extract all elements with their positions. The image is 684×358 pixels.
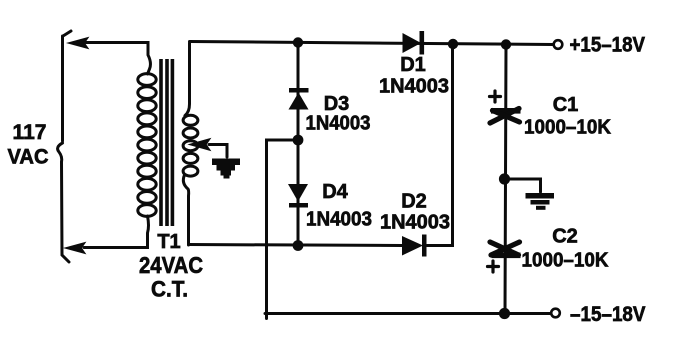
node junction C2 bottom — [499, 308, 510, 319]
node junction D2 return top — [448, 39, 458, 49]
wire D2 cathode to top rail — [427, 44, 453, 246]
svg-text:D2: D2 — [401, 191, 427, 213]
node junction D3 top — [293, 37, 303, 47]
svg-text:C.T.: C.T. — [151, 277, 188, 302]
diode D4 — [288, 184, 308, 208]
wire negative rail — [265, 312, 550, 315]
diode D2 — [402, 235, 427, 257]
117 VAC source line — [58, 31, 71, 262]
svg-text:24VAC: 24VAC — [139, 252, 203, 278]
svg-text:1000–10K: 1000–10K — [524, 117, 612, 139]
wire D3 D4 branch — [297, 43, 300, 246]
diode D1 — [403, 31, 425, 55]
svg-text:1N4003: 1N4003 — [306, 113, 371, 135]
transformer T1 core — [161, 59, 172, 226]
ground filter — [526, 193, 555, 210]
wire center tap — [209, 145, 227, 158]
polarity plus C1 — [490, 91, 501, 102]
source label 117 VAC — [8, 121, 49, 169]
svg-text:C1: C1 — [553, 94, 579, 116]
wire top positive rail — [190, 42, 554, 45]
svg-text:117: 117 — [13, 121, 47, 144]
svg-text:+15–18V: +15–18V — [570, 33, 646, 56]
svg-text:1N4003: 1N4003 — [380, 212, 450, 234]
wire secondary bottom lead — [183, 175, 188, 245]
svg-text:–15–18V: –15–18V — [570, 303, 646, 326]
ground center tap — [212, 159, 240, 179]
transformer T1 secondary winding — [183, 115, 198, 176]
svg-text:1000–10K: 1000–10K — [522, 250, 610, 272]
transformer T1 primary winding — [138, 74, 156, 217]
node junction D4 bottom — [293, 240, 304, 251]
svg-text:1N4003: 1N4003 — [379, 76, 449, 98]
wire primary top lead — [86, 43, 150, 75]
wire secondary bottom to D2 — [189, 245, 403, 246]
polarity plus C2 — [488, 261, 499, 272]
svg-text:C2: C2 — [552, 226, 578, 248]
node junction D3 D4 anodes — [293, 135, 304, 146]
svg-text:1N4003: 1N4003 — [306, 209, 372, 231]
arrowhead primary top — [69, 38, 88, 48]
terminal -15-18V — [551, 309, 560, 318]
node junction C1 top — [501, 39, 511, 49]
wire ground tap — [505, 179, 541, 192]
capacitor C1 — [490, 108, 521, 123]
wire secondary top lead — [185, 43, 190, 116]
arrowhead center tap — [191, 140, 209, 150]
diode D3 — [289, 88, 309, 110]
svg-text:D1: D1 — [400, 54, 426, 76]
node junction ground tap — [499, 173, 510, 184]
arrowhead primary bottom — [66, 243, 85, 253]
svg-text:VAC: VAC — [8, 146, 49, 169]
wire filter branch — [505, 45, 506, 314]
wire junction to negative rail — [267, 140, 299, 319]
terminal +15-18V — [554, 40, 563, 49]
svg-text:D4: D4 — [322, 181, 348, 203]
wire primary bottom lead — [84, 216, 149, 248]
svg-text:T1: T1 — [157, 231, 180, 253]
capacitor C2 — [490, 242, 521, 258]
